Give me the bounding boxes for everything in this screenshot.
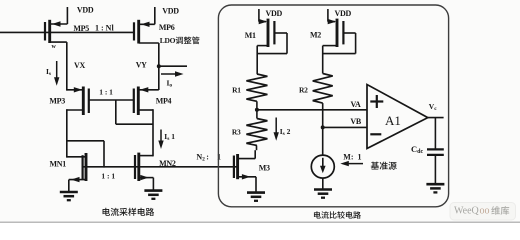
- svg-text:M1: M1: [245, 31, 256, 40]
- transistor MN2 (NMOS): [135, 153, 153, 191]
- capacitor Cdc: [427, 149, 444, 184]
- caption: current comparison circuit: [314, 211, 361, 218]
- svg-text:MP6: MP6: [159, 23, 175, 32]
- wire: MP3 drain down to MN1: [66, 109, 68, 157]
- resistor R3: [256, 110, 258, 119]
- wire: R2 down to VB (crosses VA line): [322, 103, 324, 155]
- svg-text:VDD: VDD: [335, 9, 352, 18]
- svg-text:A1: A1: [385, 113, 401, 128]
- current arrow Is: [56, 61, 58, 81]
- op-amp A1: [367, 85, 428, 149]
- svg-text:Io: Io: [167, 79, 173, 89]
- svg-text:MN2: MN2: [159, 159, 176, 168]
- label LDO pass device: [160, 36, 200, 45]
- wire: MP4 drain down to MN2: [152, 109, 154, 156]
- transistor MP3 (PMOS, mirrored): [67, 87, 89, 116]
- wire: VB to op-amp -: [323, 126, 367, 128]
- svg-text:MP4: MP4: [156, 97, 172, 106]
- wire: down to capacitor: [434, 118, 436, 150]
- svg-text:VDD: VDD: [266, 9, 283, 18]
- svg-text:R1: R1: [232, 85, 241, 94]
- svg-text:oo: oo: [480, 206, 490, 217]
- svg-text:Cdc: Cdc: [411, 144, 423, 155]
- resistor R2: [313, 74, 333, 104]
- svg-text:MP5: MP5: [73, 24, 89, 33]
- ground (capacitor): [426, 184, 444, 192]
- svg-text:VX: VX: [74, 61, 85, 70]
- svg-text:w: w: [52, 44, 57, 50]
- svg-text:1 : 1: 1 : 1: [101, 172, 115, 181]
- transistor M2 (PMOS diode-connected): [323, 9, 356, 74]
- current arrow Is2: [275, 118, 277, 137]
- svg-text:Is: Is: [46, 67, 51, 77]
- node VA junction: [255, 108, 259, 112]
- svg-text:WeeQ: WeeQ: [454, 206, 480, 217]
- svg-text:VB: VB: [350, 117, 361, 126]
- reference arrow: [349, 163, 364, 165]
- svg-text:N2 : 1: N2 : 1: [196, 152, 221, 162]
- transistor MP5 (PMOS): [45, 7, 67, 43]
- current arrow Io: [161, 73, 179, 75]
- svg-text:VDD: VDD: [77, 6, 94, 15]
- current arrow Is1: [160, 130, 162, 145]
- wire: MP3/MP4 gate link: [89, 99, 134, 101]
- svg-text:VY: VY: [136, 60, 147, 69]
- watermark WeeQoo: [450, 203, 516, 221]
- transistor M3 (NMOS): [234, 150, 256, 192]
- svg-text:VA: VA: [351, 100, 361, 109]
- svg-text:MP3: MP3: [49, 96, 65, 105]
- transistor MN1 (NMOS, diode-connected): [67, 153, 86, 192]
- svg-text:M3: M3: [259, 163, 270, 172]
- enclosure box of comparison circuit: [218, 5, 448, 207]
- ground (current source): [314, 190, 332, 198]
- scan edge line at bottom: [0, 221, 520, 223]
- ground (MN1): [60, 192, 78, 200]
- svg-text:Vc: Vc: [429, 102, 437, 112]
- wire: op-amp output Vc: [428, 117, 444, 119]
- svg-text:R3: R3: [232, 127, 241, 136]
- svg-text:Is 2: Is 2: [280, 127, 291, 137]
- wire: output to the right: [159, 65, 187, 67]
- wire: MP5 drain to node VX: [50, 41, 67, 43]
- node VY junction: [157, 64, 161, 68]
- transistor MP6 (PMOS, LDO pass): [134, 7, 159, 44]
- node VB junction: [321, 125, 325, 129]
- svg-text:Is 1: Is 1: [164, 132, 175, 142]
- ground (M3): [247, 193, 265, 201]
- wire: gate tap down to MP4 drain: [115, 100, 117, 124]
- svg-text:M2: M2: [310, 31, 321, 40]
- ground (MN2): [144, 191, 162, 199]
- current source (reference): [311, 155, 334, 189]
- svg-text:M: 1: M: 1: [343, 152, 361, 161]
- svg-text:VDD: VDD: [162, 7, 179, 16]
- resistor R1: [246, 74, 267, 101]
- label reference source: [371, 162, 397, 170]
- transistor M1 (PMOS diode-connected): [257, 9, 287, 74]
- svg-text:1 : Nl: 1 : Nl: [95, 23, 114, 32]
- wire: MP6 drain / node VY: [158, 43, 160, 90]
- wire: VA to op-amp +: [257, 109, 367, 111]
- transistor MP4 (PMOS): [134, 87, 159, 116]
- wire: MN1 diode connection: [67, 140, 104, 142]
- watermark CJK: [491, 206, 509, 215]
- wire: common gate line of MP5/MP6 from left edge: [0, 31, 134, 33]
- op-amp - input mark: [370, 133, 381, 135]
- caption: current sampling circuit: [103, 208, 155, 216]
- op-amp + input mark: [370, 95, 383, 108]
- svg-text:MN1: MN1: [50, 160, 67, 169]
- svg-text:1 : 1: 1 : 1: [99, 87, 113, 96]
- wire: common gate line MN1-MN2-M3: [83, 166, 237, 168]
- svg-text:R2: R2: [299, 85, 308, 94]
- svg-text:LDO: LDO: [160, 36, 176, 45]
